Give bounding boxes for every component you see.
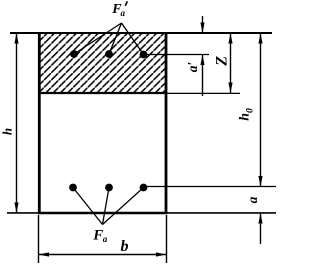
top edge line of section (with extension both sides) [10, 32, 272, 34]
dimension line h (left) [16, 33, 18, 213]
dimension line Z [230, 33, 232, 93]
svg-text:a′: a′ [185, 62, 200, 73]
arrow h0 top [258, 33, 262, 44]
dimension a lower arrow (pointing up at bottom edge) [260, 213, 262, 244]
left edge of section [38, 32, 41, 214]
hatch bottom extension line right [166, 92, 240, 94]
svg-text:a: a [121, 8, 126, 18]
svg-text:a: a [245, 196, 260, 203]
dimension a' lower arrow (pointing up at rebar level) [202, 55, 204, 97]
arrow h0 bottom [258, 176, 262, 187]
leader lines from Fa label to bottom rebar [73, 188, 144, 225]
arrow h top [14, 33, 18, 44]
dimension line h0 [260, 33, 262, 187]
arrow b right [156, 252, 167, 256]
bottom edge extension line right [167, 212, 276, 214]
bottom edge of section [38, 212, 167, 215]
bottom rebar dot 3 [140, 184, 148, 192]
top reinforcement level extension line [144, 54, 210, 56]
bottom rebar dot 2 [105, 184, 113, 192]
arrow h bottom [14, 203, 18, 214]
extension line b right [166, 215, 168, 263]
svg-text:F: F [92, 228, 103, 244]
arrow Z top [228, 33, 232, 44]
svg-text:b: b [121, 238, 129, 255]
arrow b left [39, 252, 50, 256]
dimension line b (bottom) [39, 254, 167, 256]
hatched compression zone fill [41, 34, 166, 93]
right edge of section [165, 32, 168, 214]
hatch zone bottom line [41, 92, 165, 94]
svg-text:a: a [103, 234, 108, 244]
top rebar dot 3 [140, 51, 148, 59]
dimension a' upper arrow (pointing down at top edge) [202, 16, 204, 33]
leader lines from Fa' label to top rebar [74, 23, 144, 55]
svg-text:h: h [0, 128, 15, 135]
arrow Z bottom [228, 83, 232, 94]
bottom rebar dot 1 [69, 184, 77, 192]
bottom reinforcement level extension line [144, 186, 277, 188]
bottom edge extension line left [7, 212, 38, 214]
svg-text:Z: Z [214, 56, 231, 67]
extension line b left [38, 215, 40, 263]
top rebar dot 1 [70, 50, 78, 58]
top rebar dot 2 [105, 50, 113, 58]
